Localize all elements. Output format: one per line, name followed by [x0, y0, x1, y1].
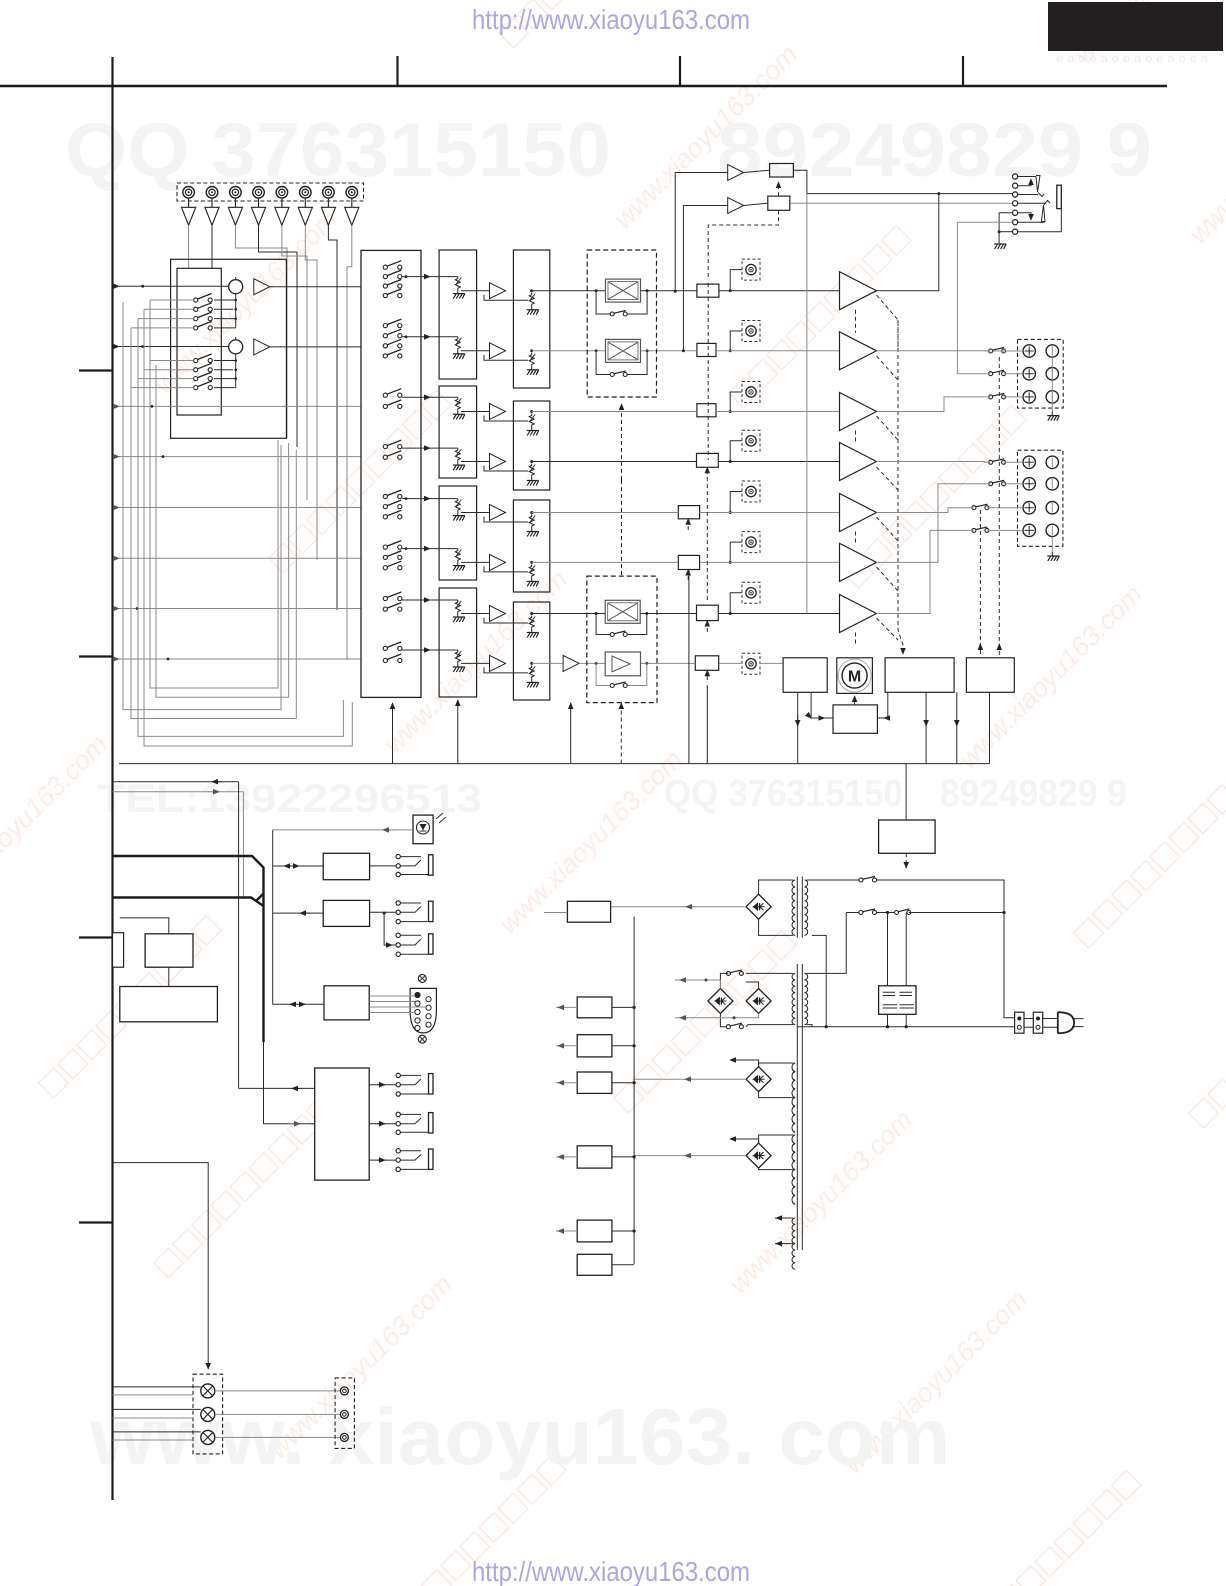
lamp output lines	[215, 1391, 341, 1438]
row5 feedback loop	[484, 517, 528, 523]
phono node column 2	[214, 361, 236, 388]
svg-text:www. xiaoyu163. com: www. xiaoyu163. com	[89, 1392, 950, 1481]
speaker relay dashed control 1	[998, 357, 1000, 655]
row7 level pot VR7	[742, 582, 760, 603]
wire buffer3 bend	[235, 225, 287, 259]
ctrl wire arrow right	[113, 791, 244, 793]
transformer T2 secondary	[792, 973, 795, 1024]
fuse wires	[1024, 1019, 1058, 1028]
speaker block B ground	[1051, 537, 1053, 552]
bus riser to effect box left	[570, 703, 572, 764]
row3 mute box B3	[697, 404, 716, 417]
switch group SG2 row a	[194, 354, 213, 363]
row8 buffer amp A8a	[563, 655, 579, 671]
D3 output arrow	[675, 1014, 759, 1018]
headphone to speaker B2 wire	[957, 373, 1023, 375]
row2 signal wire to modulator	[532, 350, 606, 352]
row5 wire mute box to power amp	[700, 512, 840, 514]
front jack K6	[396, 1149, 400, 1153]
row8 selector out wire	[406, 649, 458, 651]
opamp A9	[254, 279, 270, 295]
left return wire drop C	[138, 319, 343, 737]
D2 output arrow	[675, 980, 720, 989]
gain stage box U7a	[439, 588, 477, 697]
speaker terminal A2 minus	[1046, 368, 1058, 380]
row3 pot tap wire	[730, 392, 742, 412]
wire bundle w8 drop	[346, 271, 348, 660]
row5 mute box B5	[678, 506, 699, 519]
supply box U46	[577, 1220, 612, 1242]
row1 selector out wire	[406, 276, 458, 278]
transformer T1 core	[797, 877, 802, 938]
rca jack J5	[276, 187, 288, 199]
row2 output node dot	[530, 349, 533, 352]
remote sensor wire	[273, 829, 413, 831]
speaker relay dashed control 2	[979, 510, 981, 655]
modulator X2 bypass wires	[596, 351, 647, 375]
wire bundle w5 drop	[306, 265, 308, 500]
fuse F2	[1033, 1012, 1042, 1033]
wire bundle w3 drop	[286, 259, 288, 438]
row3 shunt resistor R3b	[527, 414, 539, 436]
svg-text:QQ 376315150: QQ 376315150	[664, 773, 903, 815]
rca jack J6	[300, 187, 312, 199]
row6 pot tap wire	[730, 542, 742, 562]
amp1 output to headphone riser	[877, 194, 939, 291]
row3 selector out wire	[406, 396, 458, 398]
mixer node M1	[229, 280, 243, 294]
row6 opamp A6	[490, 554, 506, 570]
row7 selector out wire	[406, 599, 458, 601]
selector group G3	[383, 389, 402, 398]
amp5 output wire	[877, 508, 1024, 513]
input row line 3	[119, 405, 361, 407]
transformer T4 winding	[792, 1135, 795, 1204]
relay driver box U22	[966, 658, 1014, 693]
row8 shunt resistor R8b	[527, 665, 539, 687]
speaker block B dashed box	[1018, 450, 1063, 546]
speaker terminal B4 plus	[1023, 524, 1035, 536]
amp7 output wire	[877, 530, 1024, 613]
AC wire drop to T2	[812, 913, 846, 974]
input row line 6	[119, 557, 361, 559]
D4 output wire	[634, 1078, 746, 1080]
switch group SG2 row b	[194, 363, 213, 372]
wire buffer4 bend	[259, 225, 298, 262]
effect dashed box lower	[587, 576, 657, 703]
rca jack J8	[346, 187, 358, 199]
headphone jack tip lever 1	[1036, 176, 1044, 197]
servo box U23	[833, 705, 877, 733]
transformer T3 winding	[792, 1063, 795, 1132]
speaker terminal B1 minus	[1046, 456, 1058, 468]
supply box U47	[577, 1254, 612, 1275]
row1 wire modulator to mute box	[641, 290, 697, 292]
bus to psu drop	[905, 764, 907, 820]
row6 shunt resistor R6b	[527, 564, 539, 586]
selector group G7	[383, 592, 402, 601]
row4 shunt resistor R4b	[527, 464, 539, 486]
supply rail vertical	[633, 917, 635, 1265]
row5 pot tap wire	[730, 492, 742, 513]
buffer amp V3	[228, 198, 242, 225]
bus riser dashed to effect box	[620, 703, 622, 764]
row1 shunt resistor R1b	[527, 293, 539, 315]
bridge dashed link PA5-PA6	[855, 532, 857, 545]
headphone jack wiring	[1018, 177, 1062, 232]
speaker terminal A1 minus	[1046, 345, 1058, 357]
dial lamp dashed box	[193, 1374, 223, 1454]
svg-text:89249829 9: 89249829 9	[717, 108, 1152, 193]
bus riser to selector	[392, 703, 394, 764]
D2 D3 wires	[720, 973, 758, 1026]
mcu wire	[120, 918, 169, 934]
row7 mute box B7	[697, 605, 719, 620]
row2 opamp A2	[490, 343, 506, 359]
motor feed wire	[854, 696, 856, 705]
wire bundle w7 drop	[336, 268, 338, 610]
title block tick x397	[396, 56, 398, 86]
control box CB2 wire	[273, 912, 324, 914]
row8 level pot VR8	[742, 653, 760, 674]
modulator X1	[606, 279, 641, 302]
buffer amp V7	[321, 198, 335, 225]
row1 signal wire to modulator	[532, 290, 606, 292]
switch group SG1 row c	[194, 312, 213, 321]
buffer amp V5	[275, 198, 289, 225]
gain stage box U1a	[439, 250, 477, 379]
headphone amp A10	[728, 165, 744, 181]
headphone tap drop	[806, 194, 808, 614]
box amp bypass wires	[596, 663, 647, 685]
row8 wire box amp to mute box	[641, 662, 696, 664]
switch group SG2 row d	[194, 381, 213, 390]
left return wire drop D	[144, 309, 352, 746]
headphone jack contact 7	[1013, 229, 1018, 234]
speaker terminal A1 plus	[1023, 345, 1035, 357]
junction dots on input rows	[141, 285, 144, 288]
T1 primary switch SW1	[807, 879, 859, 881]
row4 output node dot	[530, 460, 533, 463]
row1 output node dot	[530, 289, 533, 292]
left return wire drop A	[123, 302, 281, 710]
title block tick x680	[679, 56, 681, 86]
transformer T5 winding	[792, 1218, 795, 1269]
gain stage box U3a	[439, 386, 477, 478]
headphone jack contact 1	[1013, 174, 1018, 179]
protector dashed line to relay driver	[898, 320, 903, 654]
selector group G4	[383, 440, 402, 449]
motor drive box U21	[885, 658, 954, 693]
row2 level pot VR2	[742, 321, 760, 342]
row3 wire mute box to power amp	[716, 411, 840, 413]
D5 aux arrow	[730, 1139, 759, 1143]
buffer amp V2	[205, 198, 219, 225]
phono input stubs left 1	[131, 300, 194, 328]
svg-text:www.xiaoyu163.com: www.xiaoyu163.com	[378, 564, 573, 759]
motor M1	[842, 663, 867, 688]
headphone line top	[793, 170, 807, 193]
power amp PA6	[840, 543, 877, 581]
T1 primary wire to right	[877, 880, 1016, 1018]
speaker terminal B3 plus	[1023, 502, 1035, 514]
svg-text:M: M	[848, 669, 861, 686]
mcu box small left	[113, 933, 124, 968]
row1 level pot VR1	[742, 259, 760, 280]
mains rail	[797, 1026, 1015, 1028]
modulator X2 bypass switch	[610, 371, 627, 377]
supply box U42	[577, 997, 612, 1018]
speaker terminal B1 plus	[1023, 456, 1035, 468]
selector output joins	[402, 277, 406, 650]
row6 output node dot	[530, 561, 533, 564]
T2 primary wires	[807, 973, 813, 1026]
amp4 output wire	[877, 461, 1024, 464]
headphone jack sleeve	[1057, 185, 1062, 208]
phono eq inner box	[177, 268, 221, 415]
title block tick x963	[962, 56, 964, 86]
row8 box bus drop	[706, 685, 708, 764]
switch group SG1 row d	[194, 321, 213, 330]
input row line 7	[119, 608, 361, 610]
rs232 interface box U32	[324, 986, 369, 1020]
left border tick y1222	[79, 1221, 112, 1223]
wire buffer7 bend	[328, 225, 337, 268]
modulator X3 bypass wires	[596, 614, 647, 635]
row5 input resistor R5a	[453, 499, 465, 521]
bridge dashed link PA7	[855, 633, 857, 646]
headphone ground wire	[999, 213, 1012, 240]
input row line 2	[119, 346, 229, 348]
dial lamp L2	[201, 1407, 215, 1421]
row5 level pot VR5	[742, 481, 760, 502]
rca jack J4	[253, 187, 265, 199]
display box U31	[120, 987, 218, 1022]
gain stage box U5b	[513, 500, 549, 592]
wire buffer5 bend	[282, 225, 307, 265]
db9 pins	[415, 992, 420, 997]
input row line 1	[119, 285, 229, 287]
wire bundle w6 drop	[316, 268, 318, 560]
lamp feed wire	[113, 1163, 209, 1369]
front aux box U33	[315, 1068, 370, 1180]
input jack panel dashed box	[177, 183, 364, 201]
ctrl vertical A	[238, 782, 240, 1089]
row2 wire modulator to mute box	[641, 350, 697, 352]
modulator X1 bypass switch	[610, 311, 627, 317]
rca jack J2	[206, 187, 218, 199]
headphone feed line 1	[807, 193, 1013, 195]
modulator X3 bypass switch	[610, 631, 627, 637]
mini jack K1	[396, 854, 400, 858]
buffer amp V6	[298, 198, 312, 225]
wire buffer8 bend	[347, 225, 352, 271]
row4 selector out wire	[406, 447, 458, 449]
headphone jack contact 6	[1013, 220, 1018, 225]
left border tick y370	[79, 369, 112, 371]
row4 input resistor R4a	[453, 448, 465, 470]
speaker terminal B3 minus	[1046, 502, 1058, 514]
AC plug P1	[1058, 1012, 1074, 1033]
rca jack J1	[183, 187, 195, 199]
row7 input resistor R7a	[453, 600, 465, 622]
headphone feed line 2	[790, 202, 1013, 204]
left return wire drop F	[156, 365, 289, 697]
modulator X1 bypass wires	[596, 291, 647, 314]
svg-text:http://www.xiaoyu163.com: http://www.xiaoyu163.com	[472, 4, 750, 35]
D4 aux arrow	[730, 1060, 759, 1067]
row4 opamp A4	[490, 454, 506, 470]
speaker terminal B4 minus	[1046, 524, 1058, 536]
power amp PA5	[840, 494, 877, 532]
row5 signal wire to mute box	[532, 512, 679, 514]
row8 input resistor R8a	[453, 650, 465, 672]
mcu wire down	[168, 967, 170, 986]
bus riser to gain box	[457, 700, 459, 764]
row1 input resistor R1a	[453, 277, 465, 299]
left border line	[111, 57, 113, 1500]
db9 mount screws	[418, 974, 426, 982]
flat cable thick wire 2	[113, 898, 264, 907]
wire buffer2 to phono box	[211, 225, 213, 268]
front jack K5	[396, 1112, 400, 1116]
row7 wire mute box to power amp	[718, 613, 839, 615]
transformer T2 core and long core	[797, 964, 802, 1250]
lamp jack J10	[340, 1410, 348, 1418]
rca jack J7	[323, 187, 335, 199]
T2 secondary bottom switch SW5	[746, 1025, 793, 1027]
selector group G1	[383, 261, 402, 270]
row7 shunt resistor R7b	[527, 616, 539, 638]
motor M1 outer box	[837, 658, 873, 694]
flat cable thick wire 1	[113, 856, 264, 1042]
speaker relay switch B4	[972, 527, 989, 533]
headphone jack tip lever 2	[1041, 201, 1050, 223]
ctrl vertical C	[272, 830, 274, 1004]
speaker terminal B2 plus	[1023, 478, 1035, 490]
row4 feedback loop	[484, 466, 528, 472]
switch group SG1 row a	[194, 294, 213, 303]
row7 wire modulator to mute box	[641, 613, 697, 615]
speaker terminal A2 plus	[1023, 368, 1035, 380]
box amp bypass switch	[610, 682, 627, 688]
svg-text:TEL:13922296513: TEL:13922296513	[97, 777, 482, 821]
svg-text:http://www.xiaoyu163.com: http://www.xiaoyu163.com	[472, 1556, 750, 1586]
left return wire drop E	[150, 300, 278, 688]
rca jack J3	[230, 187, 242, 199]
row3 signal wire to mute box	[532, 411, 697, 413]
transformer T1 primary	[805, 880, 808, 935]
svg-text:QQ 376315150: QQ 376315150	[65, 108, 611, 193]
headphone jack contact 5	[1013, 210, 1018, 215]
system control box U20	[783, 658, 827, 693]
D1 output wire	[611, 906, 747, 908]
B plus left wire	[544, 912, 567, 914]
phono node column 1	[214, 300, 236, 328]
muting box B10	[768, 196, 790, 210]
gain stage box U3b	[513, 401, 549, 490]
surround modulator dashed box	[587, 250, 656, 397]
lamp feed lines	[113, 1387, 201, 1432]
transformer T1 secondary	[792, 880, 795, 935]
row6 level pot VR6	[742, 532, 760, 553]
gain stage box U7b	[513, 602, 549, 700]
control box drop wires	[797, 692, 799, 763]
row2 shunt resistor R2b	[527, 353, 539, 375]
row8 wire buffer to box amp	[579, 662, 605, 664]
row1 feedback loop	[484, 295, 528, 301]
input selector box S1	[361, 250, 421, 697]
row3 output node dot	[530, 410, 533, 413]
row1 wire mute box to power amp	[719, 290, 840, 292]
wire buffer6 bend	[305, 225, 317, 268]
cap block C1	[879, 986, 916, 1015]
front jack K4	[396, 1073, 400, 1077]
main bus line	[119, 763, 990, 765]
dial lamp L3	[201, 1430, 215, 1444]
tap wire row2 to headphone amp	[683, 206, 727, 351]
mixer node M2	[229, 340, 243, 354]
control box CB2	[323, 900, 369, 926]
headphone jack contact 4	[1013, 201, 1018, 206]
row5 selector out wire	[406, 498, 458, 500]
db9 connector CN1	[410, 988, 436, 1033]
amp2 output wire	[877, 350, 1024, 352]
D4 wires	[759, 1063, 793, 1098]
muting control dashed wires	[778, 182, 780, 196]
modulator control dashed arrow	[621, 404, 623, 480]
front aux feed 2	[290, 1123, 300, 1125]
row3 input resistor R3a	[453, 397, 465, 419]
speaker terminal A3 minus	[1046, 391, 1058, 403]
row3 level pot VR3	[742, 382, 760, 403]
D5 output wire	[634, 1155, 746, 1157]
row3 opamp A3	[490, 404, 506, 420]
supply box U43	[577, 1035, 612, 1057]
selector group G2	[383, 319, 402, 328]
mini jack K3	[396, 933, 400, 937]
D5 wires	[759, 1135, 793, 1170]
power amp PA1	[840, 272, 877, 310]
power control dashed arrow	[905, 853, 907, 868]
buffer amp V1	[182, 198, 196, 225]
mcu box U30	[145, 934, 193, 967]
buffer amp V4	[251, 198, 265, 225]
speaker block A ground	[1051, 357, 1053, 411]
row6 mute box B6	[678, 555, 699, 569]
transformer T2 primary	[805, 973, 808, 1024]
speaker terminal A3 plus	[1023, 391, 1035, 403]
amp6 output wire	[877, 484, 1024, 563]
box amp A8b	[605, 652, 640, 676]
selector group G8	[383, 642, 402, 651]
speaker relay switch B1	[989, 459, 1006, 465]
headphone amp A11	[728, 198, 744, 214]
row8 opamp A8	[490, 655, 506, 671]
B plus supply box U41	[567, 901, 610, 922]
phono eq outer box	[171, 259, 287, 438]
amp3 output wire	[877, 397, 1024, 412]
switch group SG2 row c	[194, 372, 213, 381]
row4 signal wire to mute box	[532, 461, 697, 463]
row6 signal wire to mute box	[532, 561, 679, 563]
modulator X2	[606, 339, 641, 362]
selector group G5	[383, 490, 402, 499]
row2 feedback loop	[484, 355, 528, 361]
row4 level pot VR4	[742, 430, 760, 451]
speaker relay switch B2	[989, 480, 1006, 486]
row6 wire mute box to power amp	[700, 561, 840, 563]
